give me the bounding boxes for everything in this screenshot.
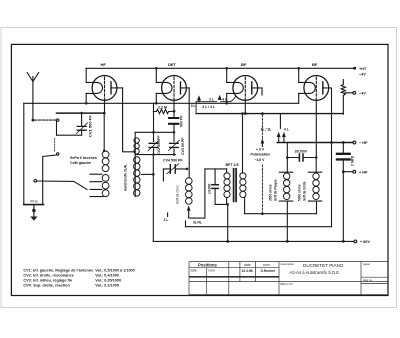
- wire bus y142.5: [277, 142, 353, 144]
- svg-text:2,2 M: 2,2 M: [158, 106, 167, 110]
- svg-text:+HT: +HT: [359, 67, 367, 71]
- svg-text:2 MFD: 2 MFD: [351, 155, 355, 166]
- svg-text:paper: paper: [363, 262, 370, 266]
- wire antenna down: [32, 82, 34, 121]
- svg-text:CV2 500 PF: CV2 500 PF: [157, 135, 161, 155]
- wire BFT primary top: [205, 168, 227, 170]
- capacitor CV4: [163, 164, 188, 181]
- svg-text:DET: DET: [168, 62, 177, 67]
- wire bus y226.7: [186, 226, 332, 228]
- antenna A1: [27, 73, 39, 82]
- svg-text:HF: HF: [101, 62, 107, 67]
- inductor L5 self de grille: [308, 158, 321, 214]
- wire BF2 plate y114: [279, 114, 281, 129]
- inductor L4 self de plaque: [279, 143, 292, 242]
- coil taps: [90, 174, 103, 196]
- coil L1 antenna tapped: [90, 113, 109, 197]
- svg-text:CV3: Inf. milieu, réglage fin: CV3: Inf. milieu, réglage fin: [23, 279, 72, 283]
- svg-text:dwg no.: dwg no.: [363, 278, 373, 282]
- wire left bus down: [23, 103, 25, 204]
- svg-text:Self de Grille: Self de Grille: [302, 181, 306, 201]
- svg-text:3 L: 3 L: [209, 98, 214, 102]
- svg-text:CV4 500 PF: CV4 500 PF: [163, 159, 183, 163]
- terminal -4V: [353, 91, 356, 94]
- svg-text:BRH.1 Kv.: BRH.1 Kv.: [281, 282, 294, 286]
- svg-text:500 PF: 500 PF: [180, 115, 184, 127]
- svg-text:−4,5 V: −4,5 V: [255, 158, 266, 162]
- wire BF1 grid to transformer: [242, 114, 244, 169]
- capacitor CV3: [169, 132, 180, 154]
- svg-text:nom: nom: [263, 263, 270, 267]
- capacitor CV2: [148, 140, 159, 150]
- svg-text:PT O: PT O: [31, 200, 39, 204]
- inductor L3 self de choc: [186, 178, 193, 205]
- svg-text:CV3 50 PF: CV3 50 PF: [181, 137, 185, 155]
- svg-text:3 L: 3 L: [191, 104, 196, 108]
- tube U2 DET: [156, 68, 189, 112]
- svg-text:description: description: [281, 262, 295, 266]
- svg-text:Self de choc: Self de choc: [176, 185, 180, 204]
- wire left tuned long down: [152, 155, 154, 242]
- svg-text:Positions: Positions: [198, 262, 218, 267]
- resistor R2 rheostat: [341, 80, 353, 115]
- switch contact S1a: [57, 119, 59, 121]
- switch contact S1b: [57, 153, 59, 155]
- svg-text:5000 ohms: 5000 ohms: [298, 184, 302, 201]
- svg-text:...: ...: [363, 288, 366, 292]
- terminal +80V: [354, 240, 357, 243]
- wire left tuned vertical: [153, 112, 155, 155]
- node top bus dots: [155, 67, 158, 70]
- wire grid return y213.7: [245, 213, 317, 215]
- terminal +HT: [353, 67, 356, 70]
- wire dashed antenna to switch: [35, 119, 57, 121]
- svg-text:Val.: 0,2/1000: Val.: 0,2/1000: [95, 284, 119, 288]
- svg-text:3 L: 3 L: [164, 218, 169, 222]
- svg-text:CV2: Inf. droite, résonnance: CV2: Inf. droite, résonnance: [23, 274, 73, 278]
- legend CV text block: [23, 269, 134, 288]
- svg-text:+ 80V: + 80V: [360, 240, 370, 244]
- svg-text:CV1: Inf. gauche, Réglage de l: CV1: Inf. gauche, Réglage de l’antenne: [23, 269, 93, 273]
- wire polarisation dashed: [261, 165, 263, 214]
- wire thick y113.5: [196, 113, 343, 115]
- switch S5 arrows: [277, 132, 286, 143]
- tube U1 HF: [86, 68, 122, 114]
- svg-text:3L/4L: 3L/4L: [193, 220, 202, 224]
- svg-text:CV1 500 PF: CV1 500 PF: [88, 115, 93, 137]
- svg-text:Val.: 0,4/1000: Val.: 0,4/1000: [95, 274, 119, 278]
- svg-text:− HP: − HP: [359, 141, 368, 145]
- svg-text:3500 ohms: 3500 ohms: [269, 184, 273, 201]
- svg-text:DUCRETET PIANO: DUCRETET PIANO: [303, 263, 344, 268]
- svg-text:Polarisation: Polarisation: [251, 153, 270, 157]
- svg-text:CV4: Sup. droite, réaction: CV4: Sup. droite, réaction: [23, 284, 70, 288]
- svg-text:3 L / 4 L: 3 L / 4 L: [202, 105, 215, 109]
- svg-text:−4V: −4V: [359, 72, 366, 76]
- capacitor C4 2MFD: [337, 143, 353, 242]
- switch S3 3L: [168, 169, 205, 218]
- svg-text:1/1000: 1/1000: [208, 184, 212, 194]
- svg-text:+ 0 V: + 0 V: [256, 148, 265, 152]
- terminal -HP: [353, 141, 356, 144]
- wire BFT primary bottom: [215, 204, 228, 241]
- resistor R1 grid leak 2,2M: [154, 103, 175, 113]
- svg-text:10/1000: 10/1000: [295, 149, 307, 153]
- wire DET plate down / choke line: [188, 88, 190, 178]
- svg-text:Val.: 0,5/1000 à 1/1000: Val.: 0,5/1000 à 1/1000: [95, 269, 134, 273]
- title block: [189, 262, 388, 296]
- wire thick bus y113: [57, 112, 105, 114]
- svg-text:CvM gauche: CvM gauche: [70, 161, 91, 165]
- switch S4 3L/4L top: [196, 95, 235, 114]
- wire HF plate down: [123, 88, 136, 152]
- svg-text:Self de Plaque: Self de Plaque: [273, 179, 277, 201]
- svg-text:BF: BF: [241, 62, 247, 67]
- capacitor C1 grid 500PF: [169, 112, 178, 132]
- svg-text:−4V: −4V: [359, 91, 366, 95]
- svg-text:BF: BF: [312, 62, 318, 67]
- capacitor CV1: [77, 112, 88, 135]
- svg-text:O.Renker: O.Renker: [261, 269, 276, 273]
- wire contact to left drop: [43, 155, 57, 205]
- svg-text:19.3.98: 19.3.98: [242, 269, 253, 273]
- svg-text:+ HP: + HP: [359, 170, 368, 174]
- node antenna junction: [32, 119, 35, 122]
- wire ground bar: [24, 204, 44, 206]
- tube U3 BF1: [227, 68, 262, 115]
- wire HF top bus: [86, 67, 354, 69]
- terminal +HP: [353, 170, 356, 173]
- svg-text:Val.: 0,35/1000: Val.: 0,35/1000: [95, 279, 121, 283]
- wire tuned top y132: [135, 131, 174, 133]
- wire y135: [57, 134, 82, 136]
- switch S2 blade: [34, 180, 87, 190]
- wire y154.6: [135, 154, 175, 156]
- svg-text:date: date: [191, 269, 197, 273]
- svg-text:A3-A4 à Autotransfo S.D.E.: A3-A4 à Autotransfo S.D.E.: [290, 270, 341, 275]
- svg-text:Autotransfo 3L/4L: Autotransfo 3L/4L: [124, 164, 128, 191]
- svg-text:date: date: [244, 263, 251, 267]
- svg-text:4 L: 4 L: [222, 98, 227, 102]
- wire bus +80V y241.4: [153, 240, 354, 242]
- wire filament bus y103: [24, 102, 299, 104]
- tube U4 BF2: [299, 68, 332, 226]
- svg-text:nom: nom: [209, 269, 216, 273]
- border frame: [11, 44, 388, 295]
- wire contact vertical: [56, 122, 58, 136]
- svg-text:SePa 6 broches: SePa 6 broches: [70, 156, 97, 160]
- svg-text:3L / 3L: 3L / 3L: [261, 127, 273, 131]
- ground E1: [30, 205, 37, 221]
- svg-text:4 L: 4 L: [284, 127, 289, 131]
- capacitor C3 10/1000: [286, 154, 318, 161]
- svg-text:BFT 1/3: BFT 1/3: [226, 163, 239, 167]
- transformer L2 autotransfo: [134, 132, 154, 196]
- capacitor C2 1/1000: [212, 169, 218, 205]
- switch linkage dashed: [54, 139, 56, 153]
- transformer T1 BFT 1/3: [224, 163, 246, 214]
